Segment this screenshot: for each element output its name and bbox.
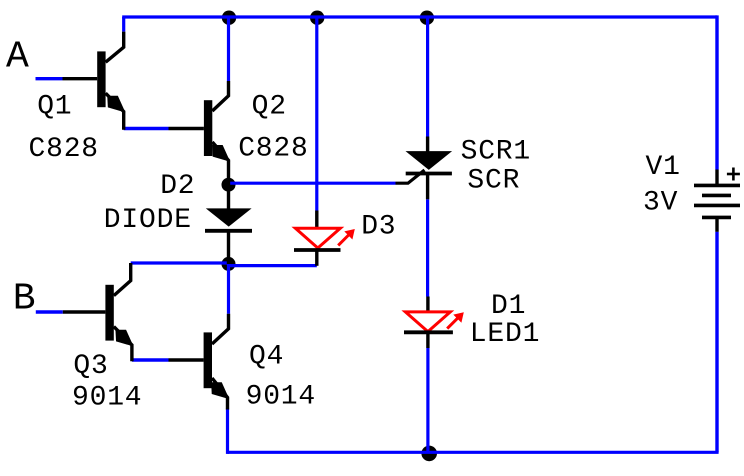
- transistor Q1: [63, 32, 124, 130]
- svg-text:A: A: [6, 36, 29, 79]
- battery V1: [694, 168, 740, 232]
- wire: Q4 emitter drop to bottom rail: [226, 409, 229, 454]
- svg-text:C828: C828: [238, 134, 308, 165]
- wire: node1 to SCR gate: [229, 182, 396, 185]
- wire: node2 down to Q4 collector: [227, 264, 230, 314]
- wire: right rail upper: [715, 15, 718, 169]
- transistor Q2: [169, 81, 229, 185]
- wire: B input: [36, 310, 63, 313]
- svg-text:Q4: Q4: [249, 341, 284, 372]
- svg-text:9014: 9014: [246, 382, 316, 413]
- svg-text:DIODE: DIODE: [104, 205, 192, 236]
- wire: D1 cathode drop to bottom rail: [426, 348, 429, 452]
- svg-text:C828: C828: [29, 134, 99, 165]
- wire: Q1 emitter to Q2 base: [124, 127, 169, 130]
- svg-text:9014: 9014: [72, 382, 142, 413]
- svg-text:Q1: Q1: [37, 92, 72, 123]
- wire: Q2 collector riser: [227, 17, 230, 81]
- transistor Q4: [169, 314, 229, 410]
- svg-text:SCR1: SCR1: [461, 137, 531, 168]
- wire: SCR cathode to D1 anode: [426, 199, 429, 296]
- svg-text:3V: 3V: [643, 188, 678, 219]
- diode D2: [205, 185, 252, 264]
- svg-text:V1: V1: [646, 152, 681, 183]
- junction: bottom rail / D1 cathode: [421, 446, 437, 462]
- wire: Q1 collector riser: [122, 17, 125, 32]
- wire: Q3 emitter to Q4 base: [132, 358, 169, 361]
- svg-text:B: B: [13, 278, 36, 321]
- svg-text:Q2: Q2: [252, 92, 287, 123]
- wire: bottom rail: [228, 451, 719, 454]
- wire: A input: [36, 77, 63, 80]
- junction: node1 (Q2 emitter / D2 anode / SCR gate): [222, 178, 236, 192]
- svg-text:SCR: SCR: [467, 166, 520, 197]
- junction: node2 (D2 cathode / Q3 collector / D3 / Q4 collector): [222, 257, 236, 271]
- wire: Q3 collector to node2: [131, 261, 229, 264]
- svg-text:D2: D2: [160, 171, 195, 202]
- svg-text:LED1: LED1: [470, 319, 540, 350]
- LED D3: [294, 211, 355, 266]
- wire: top rail: [122, 15, 717, 18]
- wire: top rail to D3 anode: [315, 17, 318, 211]
- svg-text:Q3: Q3: [73, 351, 108, 382]
- transistor Q3: [63, 263, 132, 361]
- svg-text:D3: D3: [361, 212, 396, 243]
- wire: top rail to SCR anode: [426, 17, 429, 137]
- wire: node2 to D3 cathode: [229, 264, 317, 267]
- junction: top rail / D3 branch: [310, 11, 324, 25]
- junction: top rail / SCR branch: [420, 11, 434, 25]
- junction: top rail / Q2 collector: [222, 11, 236, 25]
- wire: right rail lower: [715, 232, 718, 452]
- svg-text:D1: D1: [491, 291, 526, 322]
- LED D1: [404, 297, 464, 349]
- SCR SCR1: [396, 137, 453, 200]
